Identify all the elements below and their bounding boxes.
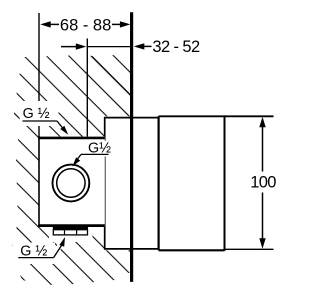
dimension 32 - 52 bbox=[61, 45, 152, 47]
svg-text:32 - 52: 32 - 52 bbox=[152, 38, 200, 56]
svg-text:100: 100 bbox=[250, 173, 276, 191]
extension line left (valve face) bbox=[38, 13, 40, 101]
label G 1/2 bottom (leader to hex nut) bbox=[54, 245, 60, 258]
svg-text:G ½: G ½ bbox=[23, 106, 50, 122]
label G1/2 (leader to outlet circle) bbox=[80, 141, 110, 157]
label G 1/2 top-left (leader to top port) bbox=[57, 121, 64, 130]
concealed valve body bbox=[105, 116, 225, 250]
hex nut (G 1/2 connection) bbox=[53, 227, 88, 230]
dimension 68 - 88 bbox=[50, 23, 122, 25]
valve front box bbox=[39, 137, 105, 227]
svg-text:68 - 88: 68 - 88 bbox=[60, 17, 111, 35]
extension line mid (min wall line) bbox=[86, 39, 88, 137]
dimension 100 bbox=[262, 126, 264, 239]
finished wall surface line bbox=[130, 12, 133, 282]
valve outlet circles bbox=[53, 165, 90, 202]
